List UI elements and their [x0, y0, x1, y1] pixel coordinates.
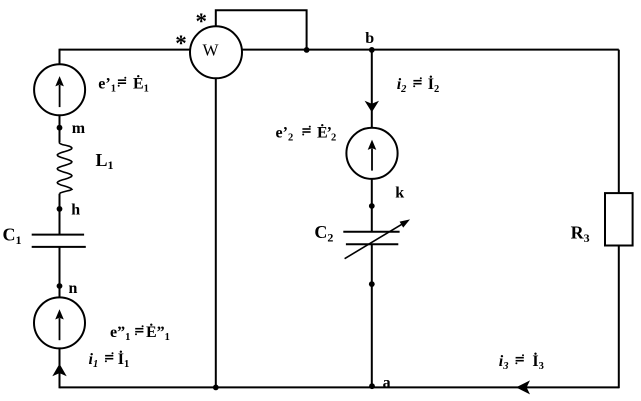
source E'2: [346, 128, 397, 179]
label i1 = I1: [89, 349, 130, 370]
wire middle branch mid: [371, 179, 373, 232]
svg-text:*: *: [175, 31, 187, 56]
label i2 = I2: [397, 74, 440, 95]
label i3 = I3: [499, 351, 544, 372]
arrow C2 variable: [345, 219, 410, 258]
wire left branch mid1: [59, 115, 61, 142]
arrow i2 down: [365, 101, 379, 113]
node wattmeter bottom junction: [213, 385, 219, 391]
wire wattmeter top loop: [216, 10, 307, 49]
wire middle branch top: [371, 50, 373, 128]
svg-text:b: b: [365, 30, 374, 47]
capacitor C1 plate top: [32, 234, 84, 236]
wire right branch bottom: [618, 246, 620, 389]
wire top bus b to right: [60, 49, 619, 51]
wire left branch bottom: [59, 348, 61, 388]
capacitor C2 plate top: [343, 231, 399, 233]
label e'1 = E1: [98, 74, 149, 95]
source E'1: [34, 64, 85, 115]
capacitor C1 plate bottom: [32, 246, 86, 248]
wire left branch top: [59, 49, 61, 65]
svg-text:*: *: [196, 9, 208, 34]
capacitor C2 plate bottom: [346, 243, 398, 245]
inductor L1: [57, 142, 72, 194]
wire wattmeter branch down: [215, 78, 217, 387]
arrow i3 left: [516, 380, 530, 394]
resistor R3: [605, 193, 633, 245]
svg-text:n: n: [69, 280, 78, 297]
node below C2: [369, 281, 375, 287]
label e''1 = E''1: [110, 322, 170, 343]
wire left branch mid3: [59, 247, 61, 298]
node n: [57, 283, 63, 289]
source E''1: [34, 297, 85, 348]
wire left branch mid2: [59, 194, 61, 235]
wire middle branch bottom: [371, 244, 373, 387]
svg-text:k: k: [395, 184, 404, 201]
wattmeter W: [190, 26, 242, 78]
svg-text:h: h: [71, 202, 80, 219]
wire bottom bus: [60, 386, 619, 388]
svg-text:W: W: [202, 41, 219, 60]
node junction top loop: [304, 47, 310, 53]
arrow i1 up: [52, 364, 66, 377]
svg-text:a: a: [383, 375, 391, 392]
node h: [57, 206, 63, 212]
node k: [369, 203, 375, 209]
node m: [57, 125, 63, 131]
label e'2 = E'2: [276, 122, 337, 143]
wire right branch top: [618, 50, 620, 194]
svg-text:m: m: [72, 120, 86, 137]
node b: [369, 47, 375, 53]
node a: [369, 383, 375, 389]
